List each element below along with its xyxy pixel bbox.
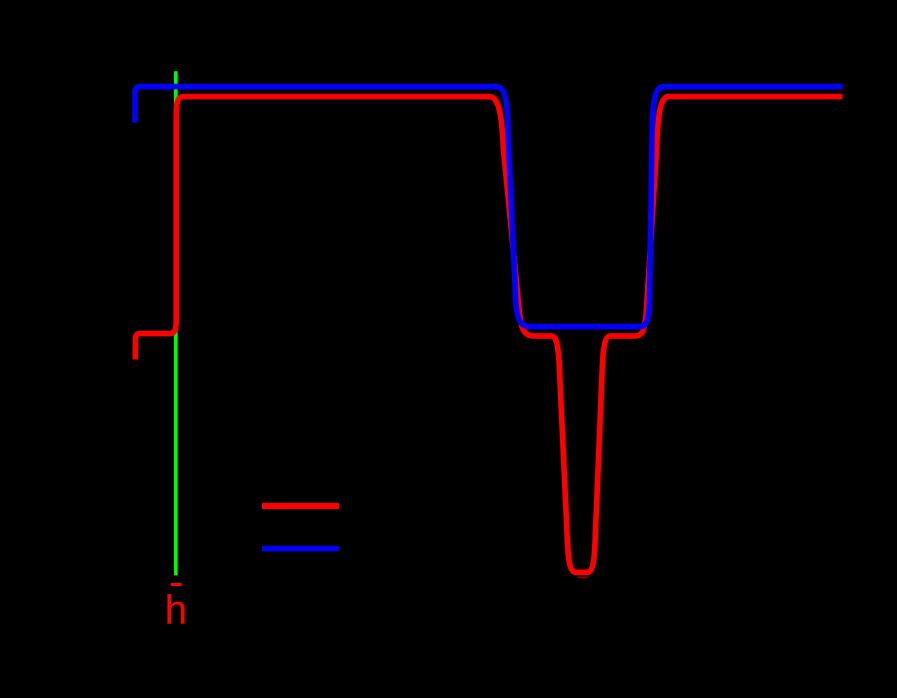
legend blue line sample [262, 546, 339, 552]
red curve (numerical profile) [135, 97, 842, 573]
legend red line sample [262, 503, 339, 509]
svg-text:h: h [165, 586, 188, 632]
red curve minimum anti-alias tail [578, 576, 589, 578]
green vertical marker line [174, 71, 178, 575]
blue curve (analytic profile) [135, 87, 843, 327]
label h-bar (red) [171, 583, 182, 586]
